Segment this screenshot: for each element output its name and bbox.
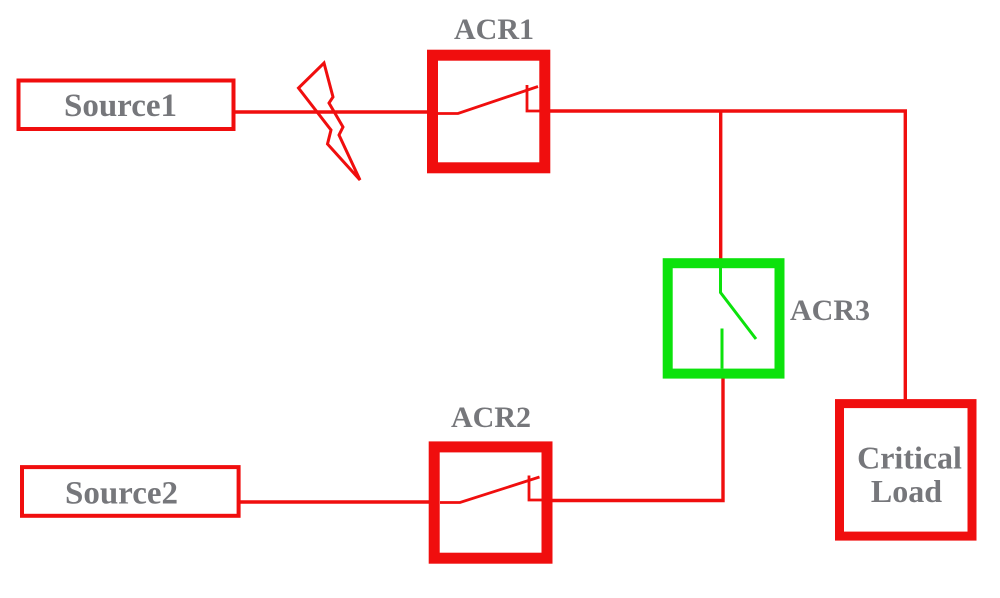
- svg-text:Source1: Source1: [64, 88, 177, 124]
- svg-text:Load: Load: [871, 473, 942, 509]
- svg-text:Critical: Critical: [857, 439, 962, 475]
- svg-text:ACR1: ACR1: [454, 13, 534, 46]
- svg-text:ACR2: ACR2: [451, 401, 531, 434]
- svg-text:Source2: Source2: [65, 475, 178, 511]
- svg-text:ACR3: ACR3: [790, 294, 870, 327]
